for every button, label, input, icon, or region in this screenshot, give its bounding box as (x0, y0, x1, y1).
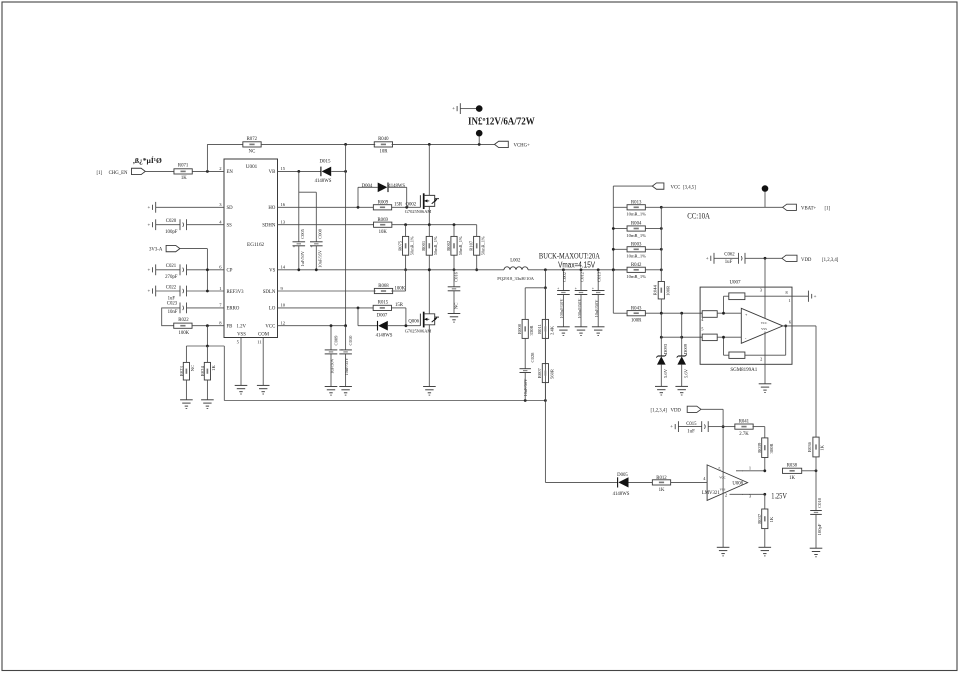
svg-text:VCC: VCC (719, 475, 726, 479)
svg-text:NC: NC (453, 303, 458, 309)
svg-text:R040: R040 (378, 137, 389, 142)
svg-text:R024: R024 (200, 366, 205, 377)
svg-text:VDD: VDD (671, 408, 682, 413)
svg-text:ERRO: ERRO (227, 307, 240, 312)
svg-text:+: + (706, 257, 709, 262)
svg-text:4: 4 (219, 220, 222, 225)
svg-text:NC: NC (249, 150, 256, 155)
svg-text:R068: R068 (378, 284, 389, 289)
svg-text:+: + (341, 348, 343, 352)
svg-text:6: 6 (219, 265, 222, 270)
svg-text:U007: U007 (729, 281, 741, 286)
svg-text:R069: R069 (377, 218, 388, 223)
svg-text:1K: 1K (181, 176, 187, 181)
svg-text:D005: D005 (617, 473, 628, 478)
svg-text:5: 5 (701, 326, 704, 331)
svg-text:C013: C013 (597, 271, 602, 282)
svg-text:R011: R011 (537, 323, 542, 333)
svg-text:VCHG+: VCHG+ (514, 143, 531, 148)
svg-text:[3,4,5]: [3,4,5] (683, 185, 696, 190)
svg-text:[1,2,3,4]: [1,2,3,4] (651, 408, 668, 413)
svg-text:R007: R007 (537, 367, 542, 378)
svg-text:5: 5 (237, 340, 240, 345)
svg-text:SD: SD (227, 206, 234, 211)
svg-text:R002: R002 (446, 240, 451, 251)
svg-text:R038: R038 (787, 463, 798, 468)
svg-text:BUCK-MAXOUT:20A: BUCK-MAXOUT:20A (539, 250, 601, 260)
svg-text:R075: R075 (397, 240, 402, 251)
svg-text:C002: C002 (562, 271, 567, 282)
svg-text:R072: R072 (247, 137, 258, 142)
svg-text:3V3-A: 3V3-A (149, 248, 163, 253)
svg-text:R043: R043 (631, 306, 642, 311)
svg-text:330R: 330R (529, 325, 534, 336)
svg-text:1uF: 1uF (725, 260, 733, 265)
svg-text:2: 2 (219, 166, 222, 171)
svg-text:CP: CP (227, 269, 233, 274)
svg-text:C028: C028 (530, 352, 535, 363)
svg-text:C016: C016 (454, 271, 459, 282)
svg-text:8: 8 (219, 321, 222, 326)
svg-text:D004: D004 (362, 184, 373, 189)
svg-text:100pF: 100pF (817, 523, 822, 535)
svg-text:+: + (814, 295, 817, 300)
svg-text:R044: R044 (653, 285, 658, 296)
svg-text:C022: C022 (166, 285, 177, 290)
svg-text:SGM8199A1: SGM8199A1 (730, 368, 757, 373)
svg-text:C020: C020 (166, 219, 177, 224)
svg-text:100R: 100R (665, 285, 670, 296)
svg-text:R015: R015 (378, 301, 389, 306)
svg-text:VCC: VCC (761, 321, 768, 325)
svg-text:C023: C023 (167, 302, 178, 307)
svg-text:10mR_1%: 10mR_1% (626, 212, 646, 217)
svg-text:C009: C009 (333, 335, 338, 346)
svg-text:G7025N06AM: G7025N06AM (405, 328, 432, 333)
svg-text:100pF: 100pF (165, 230, 178, 235)
svg-text:NC: NC (190, 365, 195, 371)
svg-text:VCC: VCC (265, 325, 275, 330)
svg-text:Q006: Q006 (408, 320, 419, 325)
svg-text:11: 11 (257, 340, 262, 345)
svg-text:7: 7 (219, 303, 222, 308)
svg-text:100K: 100K (178, 331, 189, 336)
svg-text:14: 14 (281, 265, 286, 270)
svg-text:100R: 100R (631, 319, 642, 324)
svg-text:12: 12 (281, 321, 286, 326)
svg-text:4148WS: 4148WS (613, 492, 630, 497)
svg-text:CC:10A: CC:10A (687, 211, 710, 221)
svg-text:+: + (592, 287, 594, 291)
svg-text:10mR_1%: 10mR_1% (626, 254, 646, 259)
svg-text:U008: U008 (732, 482, 743, 487)
svg-text:R009: R009 (378, 200, 389, 205)
svg-text:HO: HO (268, 206, 275, 211)
svg-text:1uF: 1uF (168, 296, 176, 301)
svg-text:270pF: 270pF (165, 275, 178, 280)
svg-text:D007: D007 (377, 314, 388, 319)
svg-text:C008: C008 (318, 228, 323, 239)
svg-text:5.6V: 5.6V (663, 368, 668, 378)
svg-text:D093: D093 (663, 343, 668, 354)
svg-text:VSS: VSS (761, 327, 767, 331)
svg-text:LO: LO (269, 307, 276, 312)
svg-text:10nF: 10nF (168, 310, 178, 315)
svg-text:Vmax=4.15V: Vmax=4.15V (558, 260, 596, 269)
svg-text:R003: R003 (631, 243, 642, 248)
svg-text:10mR_1%: 10mR_1% (626, 274, 646, 279)
svg-text:R107: R107 (469, 240, 474, 251)
svg-text:VCC: VCC (671, 185, 681, 190)
svg-text:VDD: VDD (801, 258, 812, 263)
svg-text:10mR_1%: 10mR_1% (626, 233, 646, 238)
svg-text:FB: FB (227, 325, 233, 330)
svg-text:4148WS: 4148WS (376, 333, 393, 338)
svg-text:+: + (670, 425, 673, 430)
svg-text:R022: R022 (178, 318, 189, 323)
svg-text:R041: R041 (739, 419, 750, 424)
svg-text:VS: VS (269, 269, 275, 274)
svg-text:2.7K: 2.7K (739, 432, 749, 437)
svg-text:[1]: [1] (825, 206, 831, 211)
svg-text:R001: R001 (421, 240, 426, 251)
svg-text:R004: R004 (631, 222, 642, 227)
svg-text:1: 1 (749, 466, 751, 471)
svg-text:D009: D009 (683, 343, 688, 354)
svg-text:10: 10 (281, 303, 286, 308)
svg-text:+: + (575, 287, 577, 291)
svg-text:COM: COM (258, 333, 270, 338)
svg-text:L002: L002 (510, 258, 521, 263)
svg-text:1K: 1K (211, 365, 216, 371)
svg-text:REF3V3: REF3V3 (227, 290, 245, 295)
svg-text:,ß¿*µÍ¹Ø: ,ß¿*µÍ¹Ø (133, 155, 162, 165)
svg-text:+: + (147, 290, 150, 295)
svg-text:R036: R036 (807, 441, 812, 452)
svg-text:R013: R013 (631, 201, 642, 206)
svg-text:1uF/50V: 1uF/50V (300, 250, 305, 266)
svg-text:G7025N06AM: G7025N06AM (405, 209, 432, 214)
svg-text:VSS: VSS (720, 487, 726, 491)
svg-text:1K: 1K (769, 516, 774, 522)
svg-text:4: 4 (701, 317, 704, 322)
svg-text:2: 2 (760, 356, 762, 361)
svg-text:+: + (293, 245, 295, 249)
svg-text:15R: 15R (395, 303, 404, 308)
svg-text:C010: C010 (348, 335, 353, 346)
svg-text:4: 4 (703, 476, 706, 481)
svg-text:4148WS: 4148WS (388, 184, 405, 189)
svg-text:R023: R023 (179, 366, 184, 377)
svg-text:2: 2 (725, 493, 727, 498)
svg-text:1.2V: 1.2V (237, 325, 247, 330)
svg-text:R012: R012 (656, 476, 667, 481)
svg-text:4148WS: 4148WS (315, 179, 332, 184)
svg-text:15: 15 (281, 166, 286, 171)
svg-text:50mR_1%: 50mR_1% (433, 236, 438, 255)
svg-text:CHG_EN: CHG_EN (109, 171, 128, 176)
svg-text:C015: C015 (686, 422, 697, 427)
svg-text:[1]: [1] (97, 171, 103, 176)
svg-text:1: 1 (219, 286, 222, 291)
svg-text:LMV321: LMV321 (702, 491, 720, 496)
svg-text:VB: VB (269, 170, 276, 175)
svg-text:3: 3 (219, 202, 222, 207)
svg-text:EN: EN (227, 170, 234, 175)
svg-text:9: 9 (281, 286, 284, 291)
svg-text:-: - (745, 336, 747, 341)
svg-text:50mR_1%: 50mR_1% (458, 236, 463, 255)
svg-text:10nF/50V: 10nF/50V (523, 378, 528, 397)
svg-text:R042: R042 (631, 263, 642, 268)
svg-text:R008: R008 (517, 323, 522, 334)
svg-text:+: + (147, 206, 150, 211)
svg-text:R037: R037 (757, 513, 762, 524)
svg-text:EG1162: EG1162 (247, 242, 265, 248)
svg-text:C062: C062 (724, 252, 735, 257)
svg-text:VSS: VSS (237, 333, 246, 338)
svg-text:D015: D015 (319, 159, 331, 164)
svg-text:1uF/50V: 1uF/50V (329, 357, 334, 373)
svg-text:560R: 560R (549, 368, 554, 379)
svg-text:U001: U001 (246, 164, 258, 170)
svg-text:50mR_1%: 50mR_1% (481, 236, 486, 255)
svg-text:C021: C021 (166, 264, 177, 269)
svg-text:1K: 1K (789, 476, 795, 481)
svg-text:5.6V: 5.6V (684, 368, 689, 378)
svg-text:15R: 15R (394, 202, 403, 207)
svg-text:6: 6 (789, 319, 792, 324)
svg-text:16: 16 (281, 202, 286, 207)
svg-text:PQ2918_33uH/10A: PQ2918_33uH/10A (497, 276, 534, 281)
svg-text:1.25V: 1.25V (771, 492, 787, 501)
svg-text:+: + (745, 312, 748, 317)
svg-text:1K: 1K (819, 444, 824, 450)
svg-text:IN£º12V/6A/72W: IN£º12V/6A/72W (468, 116, 535, 127)
svg-text:VBAT+: VBAT+ (801, 206, 817, 211)
svg-text:R071: R071 (178, 164, 189, 169)
svg-text:8: 8 (785, 290, 787, 295)
svg-text:C018: C018 (817, 497, 822, 508)
svg-text:+: + (147, 268, 150, 273)
svg-text:+: + (311, 245, 313, 249)
svg-text:1uF: 1uF (687, 430, 695, 435)
svg-text:10nF/35V: 10nF/35V (318, 249, 323, 268)
svg-text:10nF/35V: 10nF/35V (344, 357, 349, 376)
svg-text:SDLN: SDLN (263, 290, 276, 295)
svg-text:300R: 300R (769, 443, 774, 454)
svg-text:50mR_1%: 50mR_1% (409, 236, 414, 255)
svg-text:+: + (557, 287, 559, 291)
svg-text:10K: 10K (379, 230, 388, 235)
svg-text:10R: 10R (380, 150, 389, 155)
svg-text:+: + (452, 107, 455, 112)
svg-text:SDHN: SDHN (262, 224, 276, 229)
svg-text:+: + (147, 223, 150, 228)
svg-text:13: 13 (281, 220, 286, 225)
svg-text:[1,2,3,4]: [1,2,3,4] (822, 258, 839, 263)
svg-text:R039: R039 (757, 442, 762, 453)
svg-text:C005: C005 (300, 228, 305, 239)
svg-text:3: 3 (760, 287, 763, 292)
svg-text:1: 1 (788, 298, 790, 303)
svg-text:C012: C012 (579, 271, 584, 282)
svg-text:SS: SS (227, 224, 233, 229)
svg-text:2.4K: 2.4K (549, 325, 554, 335)
svg-text:1K: 1K (659, 488, 665, 493)
